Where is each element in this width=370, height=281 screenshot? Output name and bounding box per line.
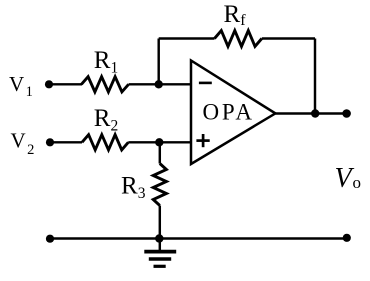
wire xyxy=(129,83,191,85)
wire xyxy=(314,39,316,114)
node V2 terminal xyxy=(46,138,54,146)
svg-text:OPA: OPA xyxy=(203,100,255,125)
wire xyxy=(157,39,159,85)
resistor Rf xyxy=(215,31,262,47)
node output junction xyxy=(311,109,319,117)
svg-text:V: V xyxy=(335,163,355,194)
wire xyxy=(159,142,161,163)
node V1 terminal xyxy=(45,80,53,88)
wire bottom rail xyxy=(50,237,347,239)
resistor R2 xyxy=(82,135,128,150)
wire xyxy=(128,141,191,143)
resistor R3 xyxy=(153,164,166,206)
wire xyxy=(159,206,161,239)
node Vo terminal xyxy=(342,109,351,118)
pin - inverting input marker xyxy=(199,82,212,85)
node rail left xyxy=(46,235,54,243)
wire xyxy=(275,112,346,114)
node A junction xyxy=(155,80,163,88)
ground xyxy=(144,239,176,267)
wire xyxy=(49,83,82,85)
op-amp body triangle xyxy=(191,61,275,165)
wire xyxy=(262,37,315,39)
wire xyxy=(159,37,215,39)
svg-text:o: o xyxy=(353,173,362,192)
node ground junction xyxy=(155,234,163,242)
wire xyxy=(50,141,82,143)
node rail right xyxy=(343,234,351,242)
node B junction xyxy=(155,138,163,146)
op-amp U1 xyxy=(191,61,275,165)
pin + non-inverting input marker xyxy=(196,139,209,142)
resistor R1 xyxy=(81,77,128,92)
